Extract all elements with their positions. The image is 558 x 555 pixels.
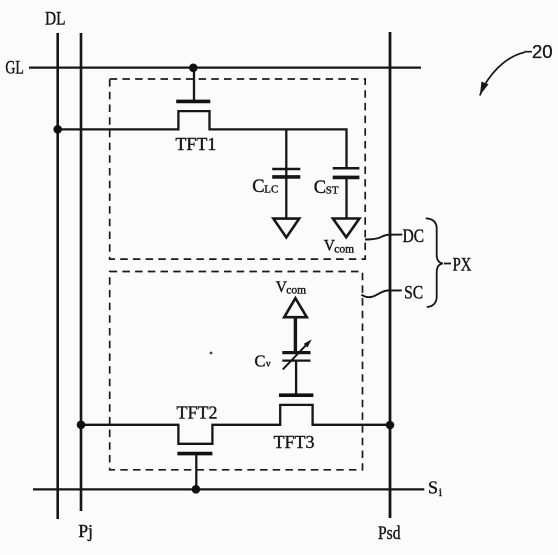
svg-text:TFT2: TFT2: [177, 403, 218, 423]
svg-text:S: S: [428, 478, 438, 498]
svg-text:Pj: Pj: [78, 521, 93, 541]
svg-text:TFT1: TFT1: [175, 134, 216, 154]
svg-text:v: v: [266, 360, 271, 370]
svg-text:20: 20: [532, 41, 553, 62]
svg-text:TFT3: TFT3: [274, 432, 315, 452]
svg-text:C: C: [255, 351, 266, 370]
svg-text:com: com: [334, 244, 354, 256]
svg-text:Psd: Psd: [378, 523, 401, 544]
svg-text:ST: ST: [326, 185, 339, 197]
svg-text:DL: DL: [45, 8, 66, 29]
svg-text:DC: DC: [403, 226, 424, 247]
svg-text:PX: PX: [453, 254, 472, 275]
svg-text:C: C: [314, 178, 326, 198]
svg-text:SC: SC: [404, 283, 423, 304]
svg-text:com: com: [286, 285, 306, 297]
svg-text:GL: GL: [5, 58, 24, 79]
svg-text:C: C: [252, 177, 264, 197]
svg-text:LC: LC: [264, 184, 278, 196]
